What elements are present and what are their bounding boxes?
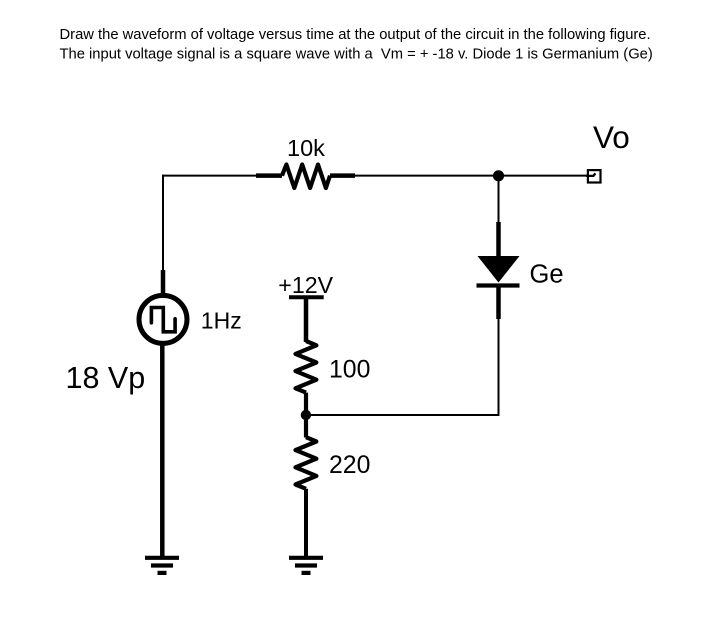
wire right vertical (diode cathode down to middle wire): [498, 285, 500, 415]
ground (source): [145, 558, 179, 573]
svg-text:Ge: Ge: [530, 261, 564, 289]
resistor R2 100: [296, 341, 317, 393]
diode D1 (Ge): [477, 256, 520, 286]
node A junction (output node dot): [493, 170, 504, 181]
wire +12V lead down to resistor: [304, 297, 309, 342]
svg-text:100: 100: [329, 356, 370, 383]
svg-text:+12V: +12V: [278, 272, 333, 298]
svg-text:Vo: Vo: [593, 119, 630, 155]
svg-text:18 Vp: 18 Vp: [66, 361, 146, 395]
wire diode anode up to output node: [498, 180, 500, 258]
svg-text:The input voltage signal is a: The input voltage signal is a square wav…: [60, 46, 653, 62]
svg-text:Draw the waveform of voltage v: Draw the waveform of voltage versus time…: [60, 27, 651, 43]
wire middle horizontal (junction to diode branch): [306, 414, 500, 416]
wire top horizontal (source to Vo node): [162, 175, 589, 177]
wire source bottom to ground: [160, 343, 165, 558]
svg-text:1Hz: 1Hz: [201, 308, 242, 334]
supply +12V rail bar: [289, 295, 324, 299]
source V1 square-wave generator: [139, 295, 187, 343]
wire junction to 220: [304, 415, 308, 438]
terminal Vo port: [586, 170, 601, 182]
wire 100 to junction: [304, 393, 308, 415]
node B junction (divider tap dot): [301, 410, 311, 420]
ground (220): [289, 558, 323, 573]
resistor R3 220: [296, 437, 317, 489]
wire 220 to ground: [304, 489, 308, 558]
svg-text:220: 220: [329, 452, 370, 479]
svg-text:10k: 10k: [287, 135, 325, 161]
resistor R1 10k: [256, 165, 355, 189]
wire left vertical (top corner down to source): [162, 175, 164, 295]
